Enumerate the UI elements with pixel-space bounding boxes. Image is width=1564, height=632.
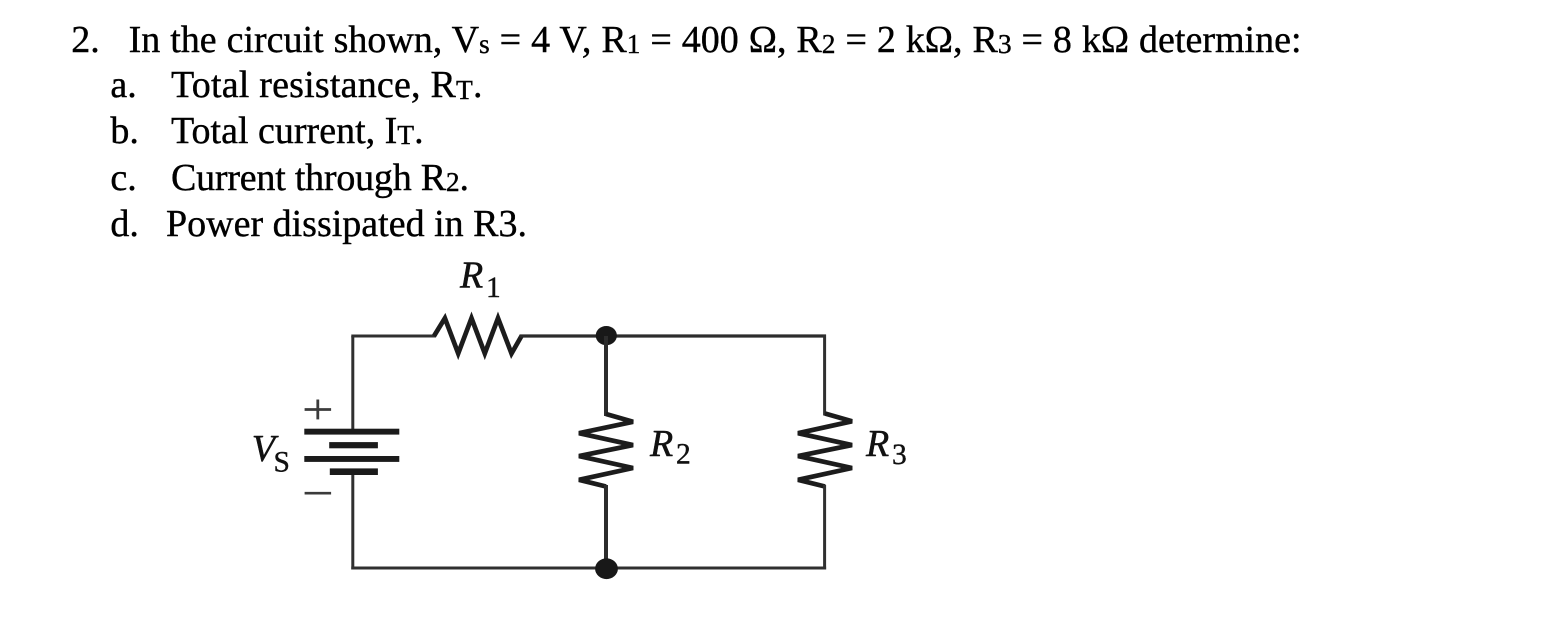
node A: top junction dot: [596, 326, 617, 345]
svg-text:3: 3: [892, 439, 907, 471]
resistor R3 zigzag: [798, 414, 852, 487]
wire left rail upper (top corner down to battery + plate): [351, 336, 354, 430]
battery - polarity mark: [305, 492, 332, 495]
problem statement text: [71, 21, 100, 59]
wire right branch upper (top-right corner down to R3): [823, 335, 826, 416]
resistor R1 zigzag: [434, 318, 522, 353]
wire middle branch lower (R2 down to node B): [604, 485, 608, 570]
svg-text:S: S: [274, 447, 290, 479]
svg-text:R: R: [865, 423, 889, 465]
wire top rail right segment (R1 to top-right corner): [520, 334, 827, 337]
resistor R2 zigzag: [579, 414, 633, 487]
wire left rail lower (battery - plate to bottom-left corner): [351, 475, 354, 570]
wire right branch lower (R3 down to bottom-right corner): [823, 485, 826, 570]
battery Vs plate 4 (short, -): [330, 468, 378, 475]
svg-text:1: 1: [486, 272, 501, 304]
wire bottom rail: [351, 567, 826, 570]
battery Vs plate 3 (long): [304, 456, 399, 462]
svg-text:2: 2: [676, 439, 691, 471]
battery + polarity mark: [305, 400, 332, 420]
battery Vs plate 1 (long, +): [304, 429, 399, 435]
wire top rail (left corner to R1 start): [351, 335, 436, 338]
battery Vs plate 2 (short): [329, 442, 378, 448]
svg-text:R: R: [649, 423, 673, 465]
svg-text:R: R: [459, 255, 483, 297]
node B: bottom junction dot: [595, 558, 618, 579]
wire middle branch upper (node A down to R2): [604, 336, 608, 416]
